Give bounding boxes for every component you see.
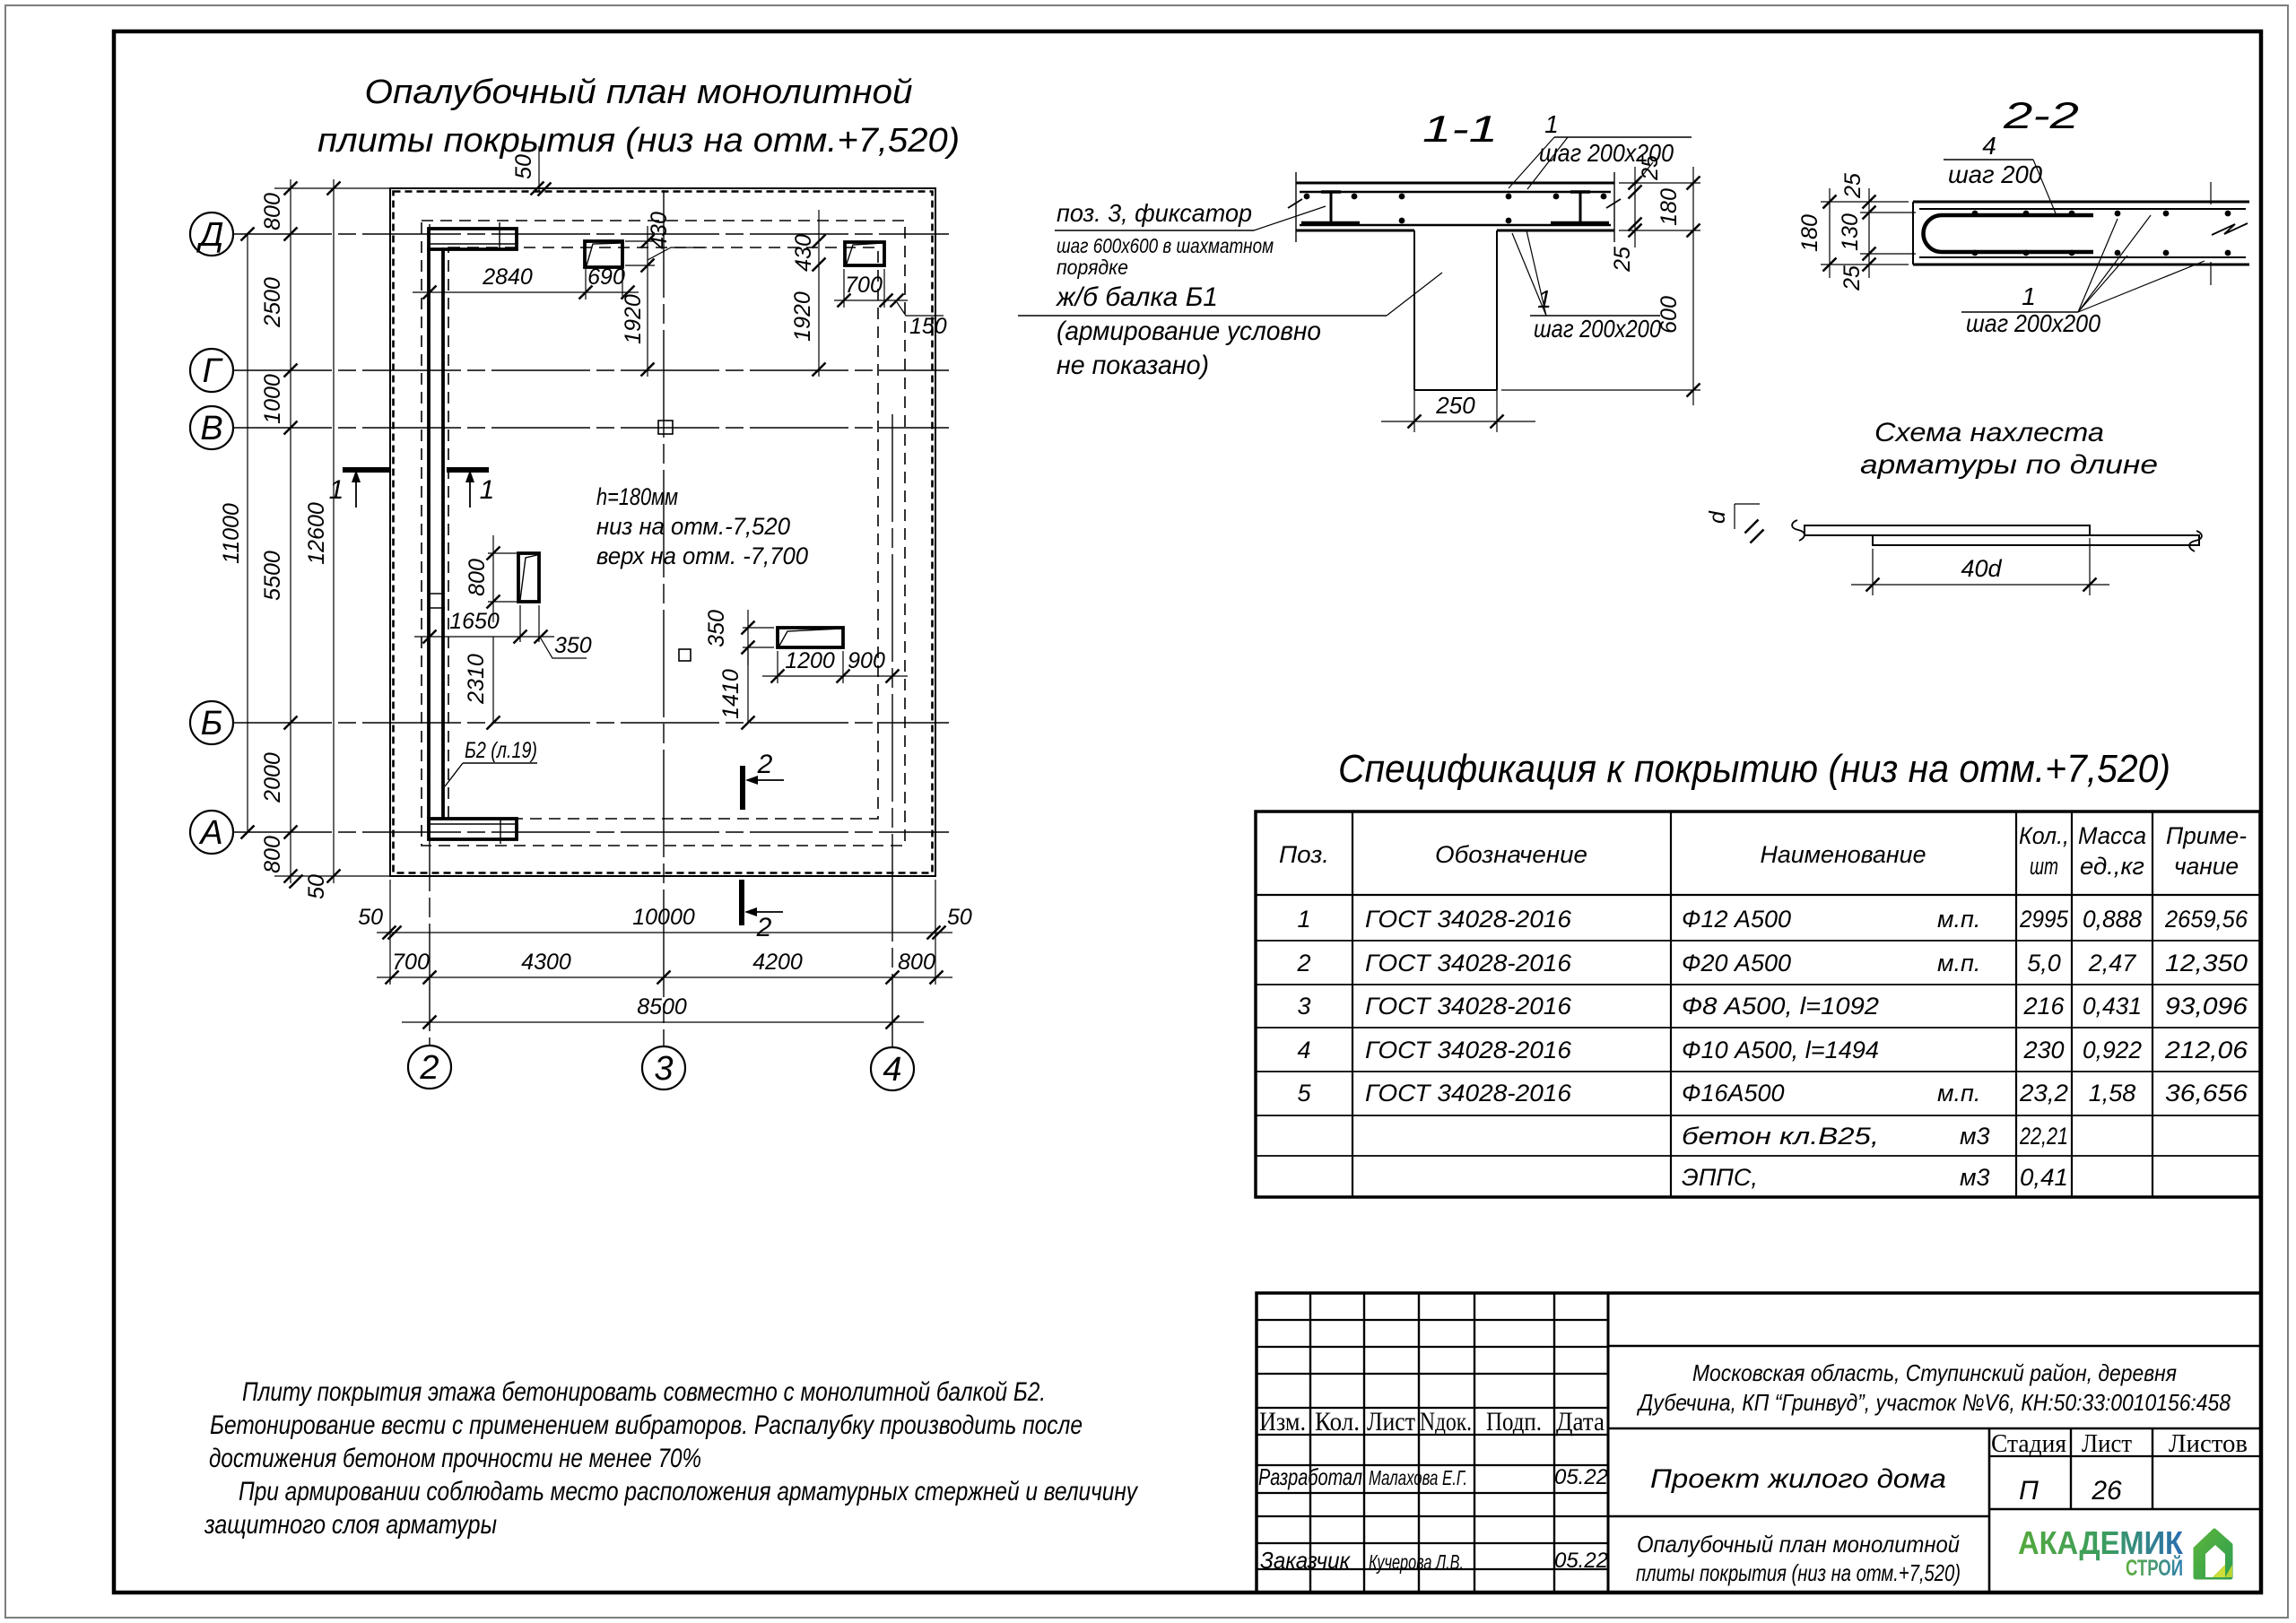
spec table header separator — [1256, 894, 2260, 896]
svg-text:700: 700 — [392, 950, 430, 975]
svg-text:1: 1 — [2022, 282, 2036, 310]
svg-text:Дубечина, КП “Гринвуд”, участо: Дубечина, КП “Гринвуд”, участок №V6, КН:… — [1636, 1389, 2231, 1416]
section mark 1 left bar — [343, 467, 389, 473]
svg-text:4200: 4200 — [752, 950, 803, 975]
svg-text:Плиту покрытия этажа бетониров: Плиту покрытия этажа бетонировать совмес… — [242, 1377, 1046, 1407]
svg-text:0,431: 0,431 — [2083, 993, 2142, 1020]
spec table row lines — [1256, 940, 2260, 942]
section mark 2 lower bar — [739, 880, 744, 925]
section mark 1 right arrow — [469, 477, 471, 508]
axis 4 line — [891, 414, 893, 1047]
2-2 break right — [2212, 223, 2248, 235]
2-2 mesh bottom line — [1919, 256, 2246, 258]
dim 1410 — [747, 647, 749, 723]
svg-text:Nдок.: Nдок. — [1420, 1407, 1472, 1436]
svg-text:достижения бетоном прочности н: достижения бетоном прочности не менее 70… — [209, 1444, 701, 1473]
title block vertical 2218 — [1988, 1428, 1991, 1593]
svg-text:1200: 1200 — [785, 648, 835, 673]
section mark 2 upper arrow — [747, 779, 784, 781]
1-1 slab top surface — [1296, 182, 1614, 185]
slab edge outline (solid) — [390, 188, 935, 876]
dim 800 at O3 — [492, 535, 494, 622]
svg-text:Кол.: Кол. — [1315, 1407, 1360, 1436]
2-2 mesh top line — [1919, 208, 2246, 210]
svg-text:5,0: 5,0 — [2027, 950, 2061, 976]
svg-text:5500: 5500 — [260, 551, 285, 601]
svg-text:800: 800 — [260, 193, 285, 230]
wall opening jamb bottom — [500, 818, 501, 844]
svg-text:шт: шт — [2030, 853, 2058, 880]
svg-text:36,656: 36,656 — [2165, 1080, 2248, 1107]
svg-text:Опалубочный план монолитной: Опалубочный план монолитной — [1637, 1531, 1960, 1558]
1-1 beam web — [1413, 230, 1415, 390]
svg-text:м.п.: м.п. — [1937, 1080, 1980, 1107]
svg-text:2000: 2000 — [260, 752, 285, 803]
svg-text:Ф10 А500, l=1494: Ф10 А500, l=1494 — [1682, 1037, 1879, 1063]
svg-text:(армирование условно: (армирование условно — [1057, 317, 1321, 346]
svg-text:Поз.: Поз. — [1279, 841, 1329, 868]
dim 900 — [886, 670, 900, 683]
svg-text:25: 25 — [1610, 247, 1635, 273]
svg-text:верх на отм. -7,700: верх на отм. -7,700 — [596, 542, 808, 569]
wall below dashed rect 1 — [422, 221, 905, 846]
dim 350 leader at O3 — [541, 638, 587, 658]
svg-text:50: 50 — [304, 874, 329, 899]
svg-text:430: 430 — [791, 234, 816, 272]
svg-text:23,2: 23,2 — [2019, 1080, 2068, 1107]
axis Г line — [233, 369, 949, 371]
svg-text:2310: 2310 — [464, 654, 489, 705]
opening O2 top-right — [845, 242, 884, 265]
column mark at В/3 — [658, 421, 673, 434]
lap top bar — [1805, 525, 2090, 535]
axis А bubble — [190, 811, 233, 854]
lap top bar break — [1792, 520, 1805, 541]
svg-text:Кол.,: Кол., — [2019, 822, 2069, 849]
svg-text:При армировании соблюдать мест: При армировании соблюдать место располож… — [239, 1477, 1139, 1506]
1-1 slab right cut — [1613, 172, 1615, 242]
section mark 1 left arrow — [355, 477, 357, 508]
svg-text:4300: 4300 — [521, 950, 571, 975]
svg-text:3: 3 — [654, 1050, 673, 1088]
axis 2 bubble — [408, 1046, 451, 1089]
svg-text:2: 2 — [756, 913, 772, 942]
svg-text:шаг 600х600 в шахматном: шаг 600х600 в шахматном — [1057, 234, 1274, 257]
2-2 rebar dots bottom — [1972, 250, 1979, 256]
axis Д line — [233, 233, 949, 235]
svg-text:4: 4 — [1982, 132, 1996, 160]
section mark 1 right bar — [447, 467, 489, 473]
2-2 slab left end — [1912, 202, 1914, 265]
svg-text:1410: 1410 — [718, 669, 744, 719]
svg-text:216: 216 — [2022, 993, 2065, 1020]
svg-text:СТРОЙ: СТРОЙ — [2126, 1554, 2183, 1581]
svg-text:Изм.: Изм. — [1259, 1407, 1306, 1436]
2-2 ext verticals right — [2210, 182, 2212, 204]
svg-text:12,350: 12,350 — [2165, 950, 2248, 976]
extension lines O2 — [843, 269, 845, 308]
svg-text:м.п.: м.п. — [1937, 950, 1980, 976]
axis В bubble — [190, 406, 233, 449]
svg-text:900: 900 — [848, 648, 885, 673]
svg-text:Спецификация к покрытию (низ н: Спецификация к покрытию (низ на отм.+7,5… — [1338, 747, 2170, 791]
dim 350 at O4 — [747, 610, 749, 665]
svg-text:350: 350 — [554, 633, 592, 658]
svg-text:130: 130 — [1838, 213, 1863, 251]
svg-text:25: 25 — [1839, 265, 1865, 291]
svg-text:Разработал: Разработал — [1258, 1463, 1362, 1490]
svg-text:Ф12 А500: Ф12 А500 — [1682, 906, 1791, 933]
svg-text:Московская область, Ступинский: Московская область, Ступинский район, де… — [1692, 1359, 2177, 1386]
svg-text:2995: 2995 — [2019, 906, 2069, 933]
svg-text:шаг 200х200: шаг 200х200 — [1534, 315, 1661, 343]
dim 430 at O1 — [647, 226, 648, 377]
svg-text:м3: м3 — [1960, 1123, 1990, 1150]
svg-text:250: 250 — [1435, 392, 1475, 419]
svg-text:2659,56: 2659,56 — [2164, 906, 2248, 933]
svg-text:0,888: 0,888 — [2083, 906, 2142, 933]
svg-text:Лист: Лист — [2082, 1429, 2132, 1458]
axis Б bubble — [190, 701, 233, 744]
svg-text:защитного слоя арматуры: защитного слоя арматуры — [204, 1510, 497, 1540]
svg-text:бетон кл.В25,: бетон кл.В25, — [1682, 1123, 1879, 1150]
1-1 dim ext lines right — [1619, 182, 1700, 184]
svg-text:Бетонирование вести с применен: Бетонирование вести с применением вибрат… — [210, 1410, 1083, 1440]
svg-text:Наименование: Наименование — [1761, 841, 1926, 868]
svg-text:Опалубочный план монолитной: Опалубочный план монолитной — [365, 74, 913, 111]
svg-text:0,922: 0,922 — [2083, 1037, 2142, 1063]
dim 2840 — [413, 291, 639, 293]
wall below dashed rect 2 — [448, 247, 878, 819]
title block verticals stadia — [2070, 1428, 2072, 1509]
svg-text:плиты покрытия (низ на отм.+7,: плиты покрытия (низ на отм.+7,520) — [1636, 1559, 1961, 1586]
svg-text:11000: 11000 — [219, 503, 244, 564]
svg-text:180: 180 — [1797, 214, 1822, 252]
dim 10000 — [377, 932, 952, 933]
dim 700 — [834, 299, 908, 301]
svg-text:5: 5 — [1297, 1080, 1311, 1107]
svg-text:1: 1 — [1297, 906, 1310, 933]
svg-text:Стадия: Стадия — [1991, 1429, 2066, 1458]
svg-text:Обозначение: Обозначение — [1435, 841, 1587, 868]
svg-text:800: 800 — [898, 950, 935, 975]
svg-text:шаг 200: шаг 200 — [1948, 161, 2042, 188]
slab edge wall-below dashed overlay — [394, 192, 933, 873]
svg-text:ГОСТ 34028-2016: ГОСТ 34028-2016 — [1365, 950, 1572, 976]
2-2 ext lines left — [1821, 201, 1909, 203]
dim 690 — [622, 286, 635, 299]
svg-text:ГОСТ 34028-2016: ГОСТ 34028-2016 — [1365, 1037, 1572, 1063]
svg-text:Лист: Лист — [1367, 1407, 1415, 1436]
svg-text:0,41: 0,41 — [2020, 1164, 2068, 1191]
svg-text:В: В — [200, 410, 222, 447]
svg-text:плиты покрытия (низ на отм.+7,: плиты покрытия (низ на отм.+7,520) — [317, 122, 960, 160]
svg-text:230: 230 — [2022, 1037, 2064, 1063]
spec table outer frame — [1256, 811, 2260, 1197]
extension lines O1 — [585, 269, 587, 299]
svg-text:Ф16А500: Ф16А500 — [1682, 1080, 1785, 1107]
lap ext lines — [1872, 549, 1874, 595]
svg-text:350: 350 — [704, 610, 729, 647]
svg-text:150: 150 — [909, 314, 947, 339]
dim 8500 — [402, 1021, 924, 1023]
svg-text:1: 1 — [329, 475, 344, 505]
axis А line — [233, 831, 949, 833]
2-2 rebar dots top — [1972, 211, 1979, 217]
svg-text:430: 430 — [647, 212, 672, 249]
svg-text:8500: 8500 — [637, 994, 687, 1020]
axis 4 bubble — [871, 1047, 914, 1090]
svg-text:Д: Д — [196, 216, 224, 254]
svg-text:1-1: 1-1 — [1422, 108, 1498, 150]
svg-text:50: 50 — [511, 154, 536, 179]
svg-text:Подп.: Подп. — [1486, 1407, 1542, 1436]
dim 430-1920 line at O2 — [818, 210, 820, 377]
opening O1 top-middle — [585, 241, 622, 267]
beam Б2 top flange — [429, 229, 517, 249]
svg-text:порядке: порядке — [1057, 256, 1128, 279]
lap bottom bar break — [2189, 531, 2202, 551]
dim 50 top-left — [538, 146, 540, 192]
svg-text:1: 1 — [1544, 110, 1559, 138]
1-1 fixator right — [1579, 193, 1582, 222]
2-2 outer dim 180 — [1829, 188, 1831, 278]
svg-text:10000: 10000 — [632, 905, 695, 930]
svg-text:05.22: 05.22 — [1554, 1465, 1608, 1489]
dim 40d — [1851, 584, 2109, 586]
1-1 top rebar dots — [1304, 194, 1310, 200]
dim line 11000 — [247, 234, 248, 832]
svg-text:ГОСТ 34028-2016: ГОСТ 34028-2016 — [1365, 1080, 1572, 1107]
svg-text:1920: 1920 — [790, 291, 815, 342]
svg-text:1920: 1920 — [621, 294, 646, 344]
svg-text:поз. 3, фиксатор: поз. 3, фиксатор — [1057, 199, 1252, 227]
2-2 inner dim 25/130/25 — [1868, 188, 1870, 278]
1-1 bottom rebar line — [1300, 224, 1611, 227]
svg-text:Заказчик: Заказчик — [1260, 1547, 1352, 1574]
extension line top edge — [274, 187, 390, 189]
title block outer frame — [1257, 1293, 2261, 1593]
svg-text:ГОСТ 34028-2016: ГОСТ 34028-2016 — [1365, 906, 1572, 933]
svg-text:Приме-: Приме- — [2166, 822, 2247, 849]
axis Г bubble — [190, 349, 233, 392]
title block right horizontals — [1608, 1345, 2261, 1348]
svg-text:2: 2 — [419, 1049, 439, 1087]
svg-text:1,58: 1,58 — [2089, 1080, 2136, 1107]
svg-text:не показано): не показано) — [1057, 351, 1209, 380]
svg-text:2: 2 — [757, 750, 773, 779]
axis Д bubble — [190, 213, 233, 256]
svg-text:800: 800 — [465, 559, 490, 596]
axis Б line — [233, 722, 949, 724]
svg-text:50: 50 — [358, 905, 383, 930]
svg-text:212,06: 212,06 — [2164, 1037, 2248, 1063]
svg-text:м3: м3 — [1960, 1164, 1990, 1191]
svg-text:1: 1 — [480, 475, 495, 505]
beam Б2 web left line — [427, 247, 430, 819]
svg-text:чание: чание — [2174, 853, 2239, 880]
lap bottom bar — [1873, 535, 2199, 545]
2-2 slab bottom surface — [1913, 264, 2249, 266]
svg-text:Г: Г — [203, 352, 224, 390]
svg-text:Масса: Масса — [2078, 822, 2146, 849]
svg-text:1000: 1000 — [260, 374, 285, 424]
dim chain 700-4300-4200-800 — [377, 976, 952, 978]
axis В line — [233, 427, 949, 429]
svg-text:2500: 2500 — [260, 277, 285, 328]
2-2 slab top surface — [1913, 201, 2249, 204]
svg-text:ГОСТ 34028-2016: ГОСТ 34028-2016 — [1365, 993, 1572, 1020]
section mark 2 upper bar — [740, 766, 745, 810]
svg-text:h=180мм: h=180мм — [596, 483, 678, 510]
svg-text:4: 4 — [1297, 1037, 1310, 1063]
title block main divider — [1607, 1293, 1610, 1593]
svg-text:2840: 2840 — [482, 265, 533, 290]
svg-text:12600: 12600 — [304, 502, 329, 565]
2-2 U-bar pos.4 — [1923, 215, 2093, 252]
logo house icon — [2196, 1531, 2231, 1577]
svg-text:26: 26 — [2091, 1476, 2122, 1506]
svg-text:шаг 200х200: шаг 200х200 — [1539, 139, 1674, 167]
svg-text:2: 2 — [1296, 950, 1310, 976]
axis 3 bubble — [642, 1046, 685, 1089]
svg-text:ж/б балка Б1: ж/б балка Б1 — [1055, 282, 1218, 312]
opening O4 middle-right — [778, 628, 843, 647]
beam Б2 web right line — [441, 247, 445, 819]
dim 1650 — [414, 636, 554, 638]
svg-text:40d: 40d — [1961, 555, 2002, 582]
svg-text:м.п.: м.п. — [1937, 906, 1980, 933]
1-1 dim 250 — [1413, 269, 1415, 432]
extension lines O3 — [488, 552, 517, 554]
beam Б2 joint notches — [428, 593, 445, 595]
svg-text:25: 25 — [1840, 173, 1865, 199]
1-1 inner dim line 25/25 — [1634, 167, 1636, 247]
svg-text:Б: Б — [201, 705, 223, 742]
dim d — [1734, 504, 1735, 529]
svg-text:низ на отм.-7,520: низ на отм.-7,520 — [596, 513, 790, 540]
dim 2310 — [492, 637, 494, 723]
extension line bottom edge — [274, 875, 390, 877]
svg-text:3: 3 — [1297, 993, 1310, 1020]
dim line 12600 — [333, 179, 335, 883]
svg-text:Листов: Листов — [2169, 1429, 2248, 1458]
svg-text:690: 690 — [587, 265, 625, 290]
1-1 fixator left — [1330, 193, 1333, 222]
svg-text:Проект жилого дома: Проект жилого дома — [1650, 1464, 1946, 1494]
1-1 bottom rebar dots — [1399, 218, 1405, 224]
axis 3 line — [663, 190, 665, 1046]
dim 1200 — [762, 675, 908, 677]
svg-text:4: 4 — [883, 1051, 901, 1089]
svg-text:Ф20 А500: Ф20 А500 — [1682, 950, 1791, 976]
svg-text:700: 700 — [845, 273, 883, 298]
extension lines O4 — [743, 627, 774, 629]
svg-text:800: 800 — [260, 836, 285, 873]
svg-text:22,21: 22,21 — [2019, 1123, 2068, 1150]
svg-text:Схема нахлеста: Схема нахлеста — [1874, 418, 2104, 447]
1-1 slab bottom surface — [1296, 230, 1414, 232]
wall opening jamb top — [499, 222, 500, 248]
title block left horizontals lower — [1257, 1464, 1608, 1466]
svg-text:Дата: Дата — [1556, 1407, 1605, 1436]
dim chain left 800-2500-1000-5500-2000-800 — [290, 179, 291, 883]
svg-text:2,47: 2,47 — [2088, 950, 2137, 976]
svg-text:50: 50 — [947, 905, 972, 930]
svg-text:93,096: 93,096 — [2165, 993, 2248, 1020]
dim 150 leader — [891, 294, 904, 308]
title block verticals left part — [1309, 1293, 1311, 1593]
column mark lower — [679, 649, 691, 661]
svg-text:Б2 (л.19): Б2 (л.19) — [465, 738, 537, 763]
1-1 top rebar line — [1300, 191, 1611, 194]
svg-text:05.22: 05.22 — [1554, 1549, 1608, 1573]
svg-text:ед.,кг: ед.,кг — [2080, 853, 2144, 880]
svg-text:1650: 1650 — [449, 609, 500, 634]
1-1 slab left cut — [1295, 172, 1297, 242]
beam Б2 bottom flange — [429, 819, 517, 839]
svg-text:А: А — [198, 814, 222, 852]
spec table verticals — [1352, 811, 1353, 1197]
svg-text:180: 180 — [1657, 188, 1682, 226]
extension lines bottom — [389, 880, 391, 985]
svg-text:ЭППС,: ЭППС, — [1682, 1164, 1758, 1191]
svg-text:Малахова Е.Г.: Малахова Е.Г. — [1369, 1466, 1467, 1489]
svg-text:Кучерова Л.В.: Кучерова Л.В. — [1369, 1550, 1464, 1574]
opening O3 middle-left — [518, 553, 539, 602]
1-1 outer dim line 180/600 — [1692, 167, 1694, 405]
svg-text:шаг 200х200: шаг 200х200 — [1966, 309, 2100, 337]
svg-text:арматуры по длине: арматуры по длине — [1860, 450, 2158, 480]
section mark 2 lower arrow — [746, 911, 783, 913]
title block left horizontals upper — [1257, 1319, 1608, 1321]
svg-text:2-2: 2-2 — [2003, 94, 2079, 136]
svg-text:П: П — [2019, 1476, 2039, 1506]
svg-text:Ф8 А500, l=1092: Ф8 А500, l=1092 — [1682, 993, 1879, 1020]
axis 2 line — [429, 224, 430, 1046]
svg-text:d: d — [1705, 510, 1730, 524]
